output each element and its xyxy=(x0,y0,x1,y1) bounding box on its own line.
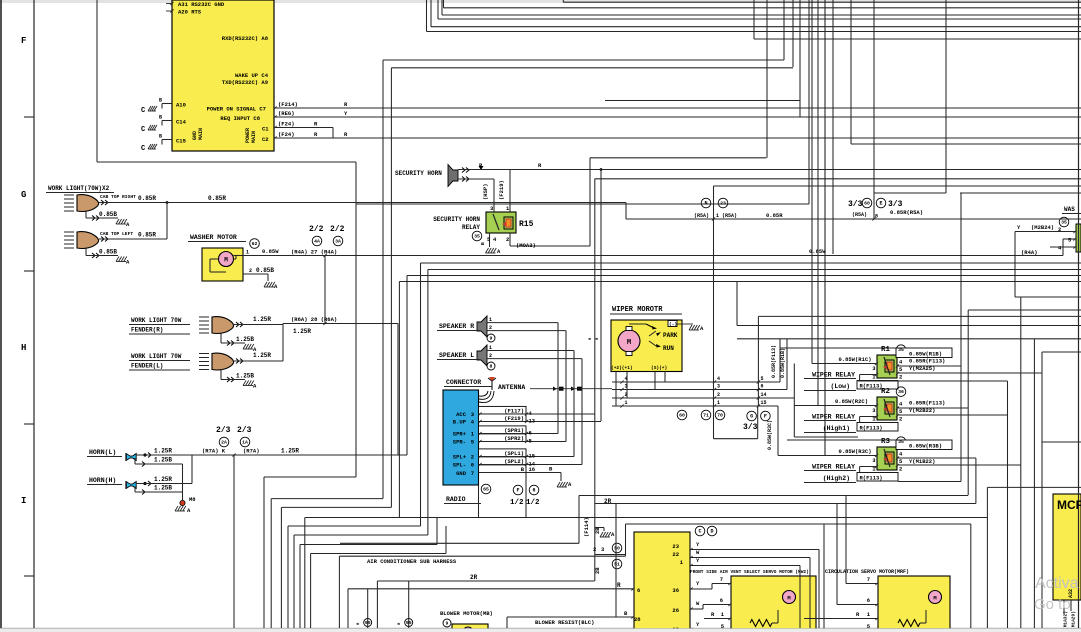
svg-text:C: C xyxy=(141,107,145,115)
svg-text:1.25R: 1.25R xyxy=(293,328,311,335)
svg-text:SPR+: SPR+ xyxy=(453,431,467,438)
svg-text:2: 2 xyxy=(471,454,474,461)
svg-text:14: 14 xyxy=(761,392,767,398)
svg-text:15: 15 xyxy=(529,453,536,460)
svg-text:I: I xyxy=(21,496,26,506)
svg-text:9: 9 xyxy=(490,336,493,342)
svg-text:1: 1 xyxy=(489,317,492,323)
svg-text:35: 35 xyxy=(1061,220,1067,226)
svg-text:5: 5 xyxy=(761,376,764,382)
svg-text:(F114): (F114) xyxy=(583,517,590,537)
svg-text:R15: R15 xyxy=(519,220,534,229)
svg-text:D: D xyxy=(710,529,713,535)
svg-text:3/3: 3/3 xyxy=(848,200,863,209)
svg-text:C: C xyxy=(141,126,145,134)
svg-text:R(F113): R(F113) xyxy=(860,474,883,481)
svg-text:4: 4 xyxy=(717,376,720,382)
svg-text:POWER ON SIGNAL C7: POWER ON SIGNAL C7 xyxy=(207,106,266,113)
svg-text:6: 6 xyxy=(529,430,532,437)
svg-text:2: 2 xyxy=(625,392,628,398)
svg-text:SPEAKER R: SPEAKER R xyxy=(439,323,474,330)
svg-text:1.25B: 1.25B xyxy=(236,336,254,343)
svg-text:(Low): (Low) xyxy=(830,383,850,390)
svg-text:F: F xyxy=(516,488,519,494)
svg-text:SECURITY HORN: SECURITY HORN xyxy=(433,216,480,223)
svg-text:2B: 2B xyxy=(594,527,601,534)
svg-text:(High2): (High2) xyxy=(823,475,850,482)
svg-text:35: 35 xyxy=(898,439,904,445)
svg-text:R(F113): R(F113) xyxy=(860,424,883,431)
svg-text:WIPER MOROTR: WIPER MOROTR xyxy=(612,306,663,314)
svg-text:2: 2 xyxy=(899,374,902,381)
svg-text:M: M xyxy=(627,339,631,347)
svg-text:28: 28 xyxy=(634,616,641,623)
svg-text:GND: GND xyxy=(456,470,467,477)
svg-text:2/2: 2/2 xyxy=(330,225,345,234)
svg-text:R2: R2 xyxy=(881,388,891,396)
svg-text:2A: 2A xyxy=(221,440,227,446)
svg-text:2/3: 2/3 xyxy=(237,426,252,435)
svg-text:71: 71 xyxy=(703,413,709,419)
svg-text:WAKE UP C4: WAKE UP C4 xyxy=(235,72,269,79)
svg-text:15: 15 xyxy=(761,400,767,406)
svg-text:A20 RTS: A20 RTS xyxy=(178,9,202,16)
svg-text:Y(M1B22): Y(M1B22) xyxy=(909,458,935,465)
svg-text:BLOWER MOTOR(MB): BLOWER MOTOR(MB) xyxy=(440,610,493,617)
svg-text:CIRCULATION SERVO MOTOR(MRF): CIRCULATION SERVO MOTOR(MRF) xyxy=(825,569,909,575)
svg-text:Go to: Go to xyxy=(1034,596,1071,613)
svg-text:REQ INPUT C8: REQ INPUT C8 xyxy=(220,115,260,122)
svg-text:WIPER RELAY: WIPER RELAY xyxy=(812,464,855,471)
svg-text:C: C xyxy=(141,145,145,153)
svg-text:3: 3 xyxy=(625,384,628,390)
svg-text:B.UP: B.UP xyxy=(453,419,467,426)
svg-text:6: 6 xyxy=(637,587,640,594)
svg-text:(SPL2): (SPL2) xyxy=(504,458,524,465)
svg-text:(R4A) 27 (R4A): (R4A) 27 (R4A) xyxy=(291,249,337,256)
svg-text:0.85R(R5A): 0.85R(R5A) xyxy=(890,209,923,216)
svg-text:8: 8 xyxy=(875,214,878,220)
svg-text:(S)(+): (S)(+) xyxy=(651,365,667,371)
svg-text:6: 6 xyxy=(867,597,870,604)
svg-text:AIR CONDITIONER SUB HARNESS: AIR CONDITIONER SUB HARNESS xyxy=(367,558,457,565)
svg-text:A10: A10 xyxy=(176,102,186,109)
svg-text:36: 36 xyxy=(672,587,679,594)
svg-text:MAIN: MAIN xyxy=(198,128,204,140)
svg-text:0.85W(R3B): 0.85W(R3B) xyxy=(909,443,942,450)
svg-text:0.85W: 0.85W xyxy=(262,248,279,255)
svg-text:CAB TOP LEFT: CAB TOP LEFT xyxy=(100,231,133,237)
svg-text:G: G xyxy=(750,414,753,420)
svg-text:(M1A29): (M1A29) xyxy=(1071,611,1077,630)
svg-text:(REG): (REG) xyxy=(278,110,295,117)
svg-text:95: 95 xyxy=(365,620,371,626)
svg-text:23: 23 xyxy=(720,201,726,207)
svg-text:0.85W(R2C): 0.85W(R2C) xyxy=(835,398,868,405)
svg-text:1.25R: 1.25R xyxy=(154,448,172,455)
svg-text:B: B xyxy=(159,115,162,121)
svg-text:H: H xyxy=(21,343,26,353)
svg-text:62: 62 xyxy=(252,241,258,247)
svg-text:1: 1 xyxy=(625,400,628,406)
svg-text:2: 2 xyxy=(1058,226,1061,233)
svg-text:2: 2 xyxy=(899,466,902,473)
svg-text:B: B xyxy=(159,98,162,104)
svg-text:1.25R: 1.25R xyxy=(154,476,172,483)
svg-text:WIPER RELAY: WIPER RELAY xyxy=(812,414,855,421)
svg-text:WORK LIGHT(70W)X2: WORK LIGHT(70W)X2 xyxy=(48,185,110,192)
svg-text:1.25B: 1.25B xyxy=(154,457,172,464)
svg-text:16: 16 xyxy=(529,466,536,473)
svg-text:(MOA3): (MOA3) xyxy=(516,242,536,249)
svg-text:0.85R: 0.85R xyxy=(138,195,156,202)
svg-text:(R4A): (R4A) xyxy=(1021,249,1038,256)
svg-text:7: 7 xyxy=(867,576,870,583)
svg-text:2: 2 xyxy=(249,268,252,274)
svg-text:(+2)(+1): (+2)(+1) xyxy=(611,365,633,371)
svg-text:0.85B: 0.85B xyxy=(99,249,117,256)
svg-text:22: 22 xyxy=(672,551,679,558)
svg-text:2: 2 xyxy=(489,325,492,331)
svg-text:1.25R: 1.25R xyxy=(253,316,271,323)
svg-text:0.85R(F113): 0.85R(F113) xyxy=(909,358,945,365)
svg-text:F: F xyxy=(21,36,26,46)
svg-text:(F219): (F219) xyxy=(504,415,524,422)
svg-text:(R5A): (R5A) xyxy=(694,213,709,219)
svg-text:WORK LIGHT 70W: WORK LIGHT 70W xyxy=(131,353,182,360)
svg-text:0.85W(R1B): 0.85W(R1B) xyxy=(780,348,786,378)
svg-text:N: N xyxy=(704,201,707,207)
svg-text:(High1): (High1) xyxy=(823,425,850,432)
svg-text:C2: C2 xyxy=(262,136,269,143)
svg-text:6: 6 xyxy=(761,384,764,390)
svg-text:RELAY: RELAY xyxy=(462,224,480,231)
svg-text:26: 26 xyxy=(672,607,679,614)
svg-text:WASHER MOTOR: WASHER MOTOR xyxy=(190,234,237,241)
svg-text:B: B xyxy=(480,242,486,245)
svg-text:1A: 1A xyxy=(242,440,248,446)
svg-text:2: 2 xyxy=(593,546,596,553)
svg-text:2: 2 xyxy=(506,236,509,243)
svg-text:(HSP): (HSP) xyxy=(482,183,489,200)
svg-text:1: 1 xyxy=(717,400,720,406)
svg-text:CONNECTOR: CONNECTOR xyxy=(446,379,481,386)
svg-text:C1: C1 xyxy=(262,126,269,133)
svg-text:4A: 4A xyxy=(314,239,320,245)
svg-text:0.85W: 0.85W xyxy=(809,248,826,255)
svg-text:A31 RS232C GND: A31 RS232C GND xyxy=(178,1,225,8)
svg-text:0.85W(R1C): 0.85W(R1C) xyxy=(838,356,871,363)
svg-text:65: 65 xyxy=(483,487,489,493)
svg-text:1.25R: 1.25R xyxy=(253,352,271,359)
svg-text:(-): (-) xyxy=(669,322,677,328)
svg-text:(F214): (F214) xyxy=(278,101,298,108)
svg-text:(SPR1): (SPR1) xyxy=(504,427,524,434)
svg-text:1: 1 xyxy=(489,345,492,351)
svg-text:60: 60 xyxy=(679,413,685,419)
svg-text:(R6A) 28 (R6A): (R6A) 28 (R6A) xyxy=(291,316,337,323)
svg-text:1: 1 xyxy=(246,250,249,256)
svg-text:ANTENNA: ANTENNA xyxy=(498,384,525,391)
svg-text:SPEAKER L: SPEAKER L xyxy=(439,352,474,359)
svg-text:60: 60 xyxy=(864,201,870,207)
svg-text:SECURITY HORN: SECURITY HORN xyxy=(395,170,442,177)
svg-text:0.85R: 0.85R xyxy=(766,212,783,219)
svg-text:1/2: 1/2 xyxy=(510,499,524,507)
svg-text:FRONT SIDE AIR VENT SELECT SER: FRONT SIDE AIR VENT SELECT SERVO MOTOR (… xyxy=(690,569,809,575)
svg-text:(M1A32): (M1A32) xyxy=(1063,611,1069,630)
svg-text:1.25R: 1.25R xyxy=(281,448,299,455)
svg-text:7: 7 xyxy=(471,470,474,477)
svg-text:(F117): (F117) xyxy=(504,408,524,415)
svg-text:3/3: 3/3 xyxy=(888,200,903,209)
svg-text:R1: R1 xyxy=(881,346,891,354)
svg-text:Y(M2A25): Y(M2A25) xyxy=(909,365,935,372)
svg-text:1.25B: 1.25B xyxy=(154,485,172,492)
svg-text:C14: C14 xyxy=(176,119,187,126)
svg-text:23: 23 xyxy=(672,543,679,550)
svg-text:2/3: 2/3 xyxy=(216,426,231,435)
svg-text:E: E xyxy=(879,201,882,207)
svg-text:SPR-: SPR- xyxy=(453,439,466,446)
svg-text:3: 3 xyxy=(717,384,720,390)
svg-text:0.85R(F113): 0.85R(F113) xyxy=(909,400,945,407)
svg-text:Y(M2B22): Y(M2B22) xyxy=(909,407,935,414)
svg-text:0.85W(R3C): 0.85W(R3C) xyxy=(838,448,871,455)
svg-text:R: R xyxy=(617,582,621,589)
svg-text:M: M xyxy=(224,257,228,264)
svg-text:(F24): (F24) xyxy=(278,121,295,128)
svg-text:2R: 2R xyxy=(604,498,612,505)
svg-text:(R5A): (R5A) xyxy=(852,212,867,218)
svg-text:MAIN: MAIN xyxy=(251,131,257,143)
svg-text:6: 6 xyxy=(471,462,474,469)
svg-text:36: 36 xyxy=(898,389,904,395)
svg-text:F: F xyxy=(764,414,767,420)
svg-text:35: 35 xyxy=(898,347,904,353)
svg-text:ACC: ACC xyxy=(456,411,467,418)
svg-text:0.85B: 0.85B xyxy=(99,211,117,218)
svg-text:51: 51 xyxy=(614,562,620,568)
svg-text:6: 6 xyxy=(532,488,535,494)
svg-text:4: 4 xyxy=(625,376,628,382)
svg-text:HORN(H): HORN(H) xyxy=(89,477,116,484)
svg-text:C15: C15 xyxy=(176,138,187,145)
svg-text:WORK LIGHT 70W: WORK LIGHT 70W xyxy=(131,317,182,324)
svg-text:HORN(L): HORN(L) xyxy=(89,449,116,456)
svg-text:BLOWER RESIST(BLC): BLOWER RESIST(BLC) xyxy=(535,619,594,626)
svg-text:SPL+: SPL+ xyxy=(453,454,467,461)
svg-text:70: 70 xyxy=(717,413,723,419)
svg-text:PARK: PARK xyxy=(663,332,678,339)
svg-text:2: 2 xyxy=(899,416,902,423)
svg-text:(M2B24): (M2B24) xyxy=(1031,224,1054,231)
svg-text:TXD(RS232C) A9: TXD(RS232C) A9 xyxy=(222,79,268,86)
svg-text:2/2: 2/2 xyxy=(309,225,324,234)
svg-text:(F219): (F219) xyxy=(498,180,505,200)
svg-text:1 (R5A): 1 (R5A) xyxy=(716,213,737,219)
svg-text:G: G xyxy=(21,190,26,200)
svg-text:WIPER RELAY: WIPER RELAY xyxy=(812,372,855,379)
svg-text:FENDER(L): FENDER(L) xyxy=(131,363,163,370)
svg-text:0.85R(F113): 0.85R(F113) xyxy=(771,345,777,378)
svg-text:CAB TOP RIGHT: CAB TOP RIGHT xyxy=(100,194,136,200)
svg-text:R3: R3 xyxy=(881,438,891,446)
svg-text:0.85R: 0.85R xyxy=(138,232,156,239)
svg-text:0.85W(R3C): 0.85W(R3C) xyxy=(767,420,773,450)
svg-text:2R: 2R xyxy=(470,574,478,581)
svg-text:B: B xyxy=(159,134,162,140)
svg-text:1.25B: 1.25B xyxy=(236,373,254,380)
svg-text:50: 50 xyxy=(614,546,620,552)
svg-text:3/3: 3/3 xyxy=(743,423,758,432)
svg-text:(R7A) K: (R7A) K xyxy=(202,448,226,455)
svg-text:Activa: Activa xyxy=(1035,575,1079,592)
svg-text:RADIO: RADIO xyxy=(446,496,466,503)
svg-text:FENDER(R): FENDER(R) xyxy=(131,327,163,334)
svg-text:RUN: RUN xyxy=(663,345,674,352)
svg-text:(R7A): (R7A) xyxy=(243,448,260,455)
svg-text:0.85B: 0.85B xyxy=(256,267,274,274)
svg-text:MCF: MCF xyxy=(1057,498,1081,512)
svg-text:3A: 3A xyxy=(335,239,341,245)
svg-text:WAS: WAS xyxy=(1064,206,1075,213)
svg-text:RXD(RS232C) A8: RXD(RS232C) A8 xyxy=(222,35,269,42)
svg-text:SPL-: SPL- xyxy=(453,462,466,469)
svg-text:7: 7 xyxy=(720,576,723,583)
svg-text:13: 13 xyxy=(529,418,536,425)
svg-text:35: 35 xyxy=(474,234,480,240)
svg-text:8: 8 xyxy=(490,364,493,370)
svg-text:1/2: 1/2 xyxy=(526,499,540,507)
svg-text:(SPR2): (SPR2) xyxy=(504,435,524,442)
svg-text:C: C xyxy=(698,529,701,535)
svg-text:95: 95 xyxy=(406,620,412,626)
svg-text:M8: M8 xyxy=(189,496,196,503)
svg-text:0.85R: 0.85R xyxy=(208,195,226,202)
svg-text:(F24): (F24) xyxy=(278,131,295,138)
svg-text:R(F113): R(F113) xyxy=(860,382,883,389)
svg-text:6: 6 xyxy=(720,597,723,604)
svg-text:0.85W(R1B): 0.85W(R1B) xyxy=(909,351,942,358)
svg-text:9: 9 xyxy=(446,621,449,627)
svg-text:2: 2 xyxy=(717,392,720,398)
svg-text:2B: 2B xyxy=(594,567,601,574)
svg-text:(SPL1): (SPL1) xyxy=(504,450,524,457)
svg-text:2: 2 xyxy=(489,353,492,359)
